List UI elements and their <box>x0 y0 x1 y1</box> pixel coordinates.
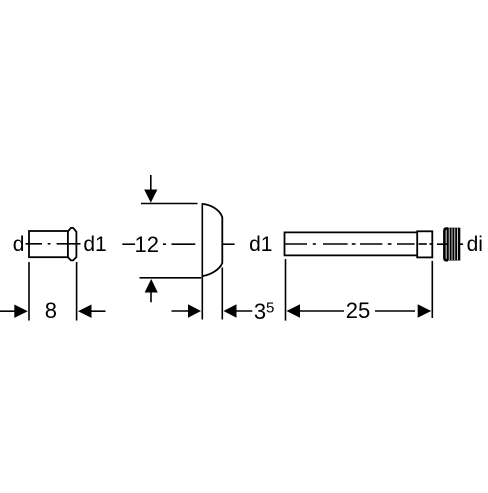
svg-text:5: 5 <box>266 299 274 316</box>
svg-text:d: d <box>13 233 25 256</box>
dim 25 left arrowhead (left) <box>287 304 301 317</box>
arrowheads <box>14 190 431 318</box>
dim 8 right arrow line <box>92 310 106 312</box>
svg-text:12: 12 <box>134 232 158 257</box>
centerline middle part <box>122 243 234 245</box>
labels <box>13 232 483 324</box>
dim 3.5 right arrowhead (left) <box>224 304 237 317</box>
sleeve end cap <box>68 228 77 261</box>
svg-text:3: 3 <box>254 299 266 324</box>
svg-text:25: 25 <box>346 298 370 323</box>
dim 12 top arrowhead (down) <box>144 190 157 203</box>
dim 3.5 right extension line <box>221 268 223 320</box>
sleeve body (left part) <box>29 231 68 257</box>
dim 25 line left segment <box>300 310 345 312</box>
dome cap outline <box>202 204 222 276</box>
rod body <box>285 232 418 255</box>
svg-text:d1: d1 <box>83 233 106 256</box>
svg-text:d1: d1 <box>249 233 272 256</box>
dim 8 left extension line <box>28 262 30 321</box>
dim 25 left extension line <box>285 259 287 321</box>
dim 3.5 right arrow line <box>235 310 253 312</box>
plug centerline <box>437 243 463 245</box>
dim 12 bottom arrow line <box>150 292 152 302</box>
dim 8 left arrowhead (right) <box>14 305 27 318</box>
plug thread block <box>447 228 461 261</box>
dim 3.5 left arrow line <box>172 310 190 312</box>
dim 25 right arrowhead (right) <box>418 304 432 317</box>
dim 25 right extension line <box>431 261 433 318</box>
dim 3.5 left arrowhead (right) <box>188 304 201 317</box>
svg-text:8: 8 <box>45 298 57 323</box>
dim 12 top arrow <box>150 175 152 190</box>
dim 8 right arrowhead (left) <box>78 305 92 318</box>
svg-text:di: di <box>467 233 483 256</box>
dim 8 left arrow line <box>0 310 15 312</box>
dim 12 bottom arrowhead (up) <box>145 279 158 293</box>
dim 25 line right segment <box>375 310 415 312</box>
centerline left part <box>26 243 81 245</box>
dim 12 bottom extension line <box>140 277 202 279</box>
rod centerline <box>285 243 432 245</box>
rod head <box>417 231 432 257</box>
dim 12 top extension line <box>141 203 198 205</box>
dim 8 right extension line <box>76 262 78 321</box>
dome left edge + 3.5 left extension line <box>201 203 203 319</box>
threaded plug left cap <box>444 229 448 261</box>
